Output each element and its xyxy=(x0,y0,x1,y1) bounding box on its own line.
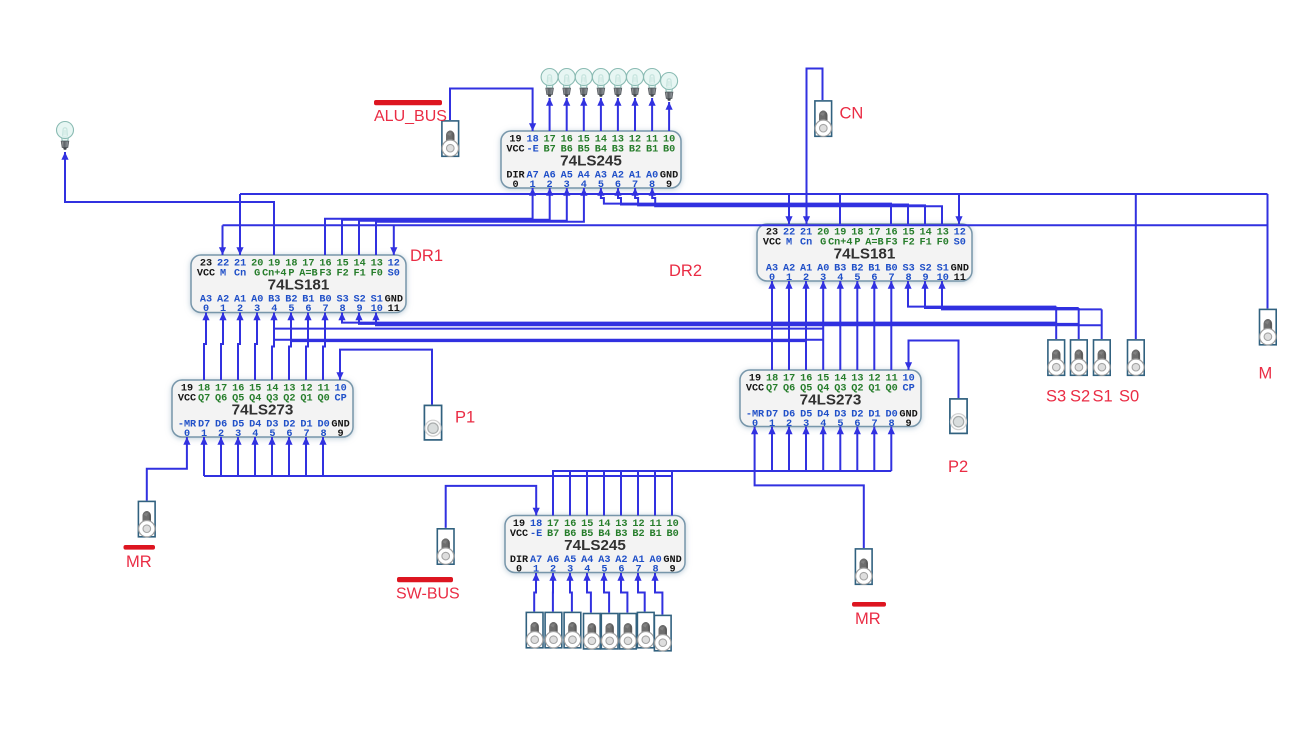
svg-text:S1: S1 xyxy=(1093,388,1113,406)
svg-text:S3: S3 xyxy=(1046,388,1066,406)
svg-text:74LS181: 74LS181 xyxy=(268,277,330,294)
svg-text:ALU_BUS: ALU_BUS xyxy=(374,108,447,125)
svg-text:74LS273: 74LS273 xyxy=(800,392,862,409)
svg-text:CN: CN xyxy=(840,105,864,123)
svg-text:SW-BUS: SW-BUS xyxy=(396,586,460,603)
svg-text:74LS245: 74LS245 xyxy=(564,537,626,554)
svg-text:MR: MR xyxy=(855,610,881,628)
svg-text:DR1: DR1 xyxy=(410,247,443,265)
svg-text:MR: MR xyxy=(126,553,152,571)
svg-text:P1: P1 xyxy=(455,409,475,427)
svg-text:74LS273: 74LS273 xyxy=(232,402,294,419)
svg-text:S0: S0 xyxy=(1119,388,1139,406)
svg-text:74LS245: 74LS245 xyxy=(560,153,622,170)
svg-text:DR2: DR2 xyxy=(669,262,702,280)
svg-text:74LS181: 74LS181 xyxy=(834,246,896,263)
svg-text:P2: P2 xyxy=(948,458,968,476)
svg-text:S2: S2 xyxy=(1070,388,1090,406)
svg-text:M: M xyxy=(1259,365,1273,383)
